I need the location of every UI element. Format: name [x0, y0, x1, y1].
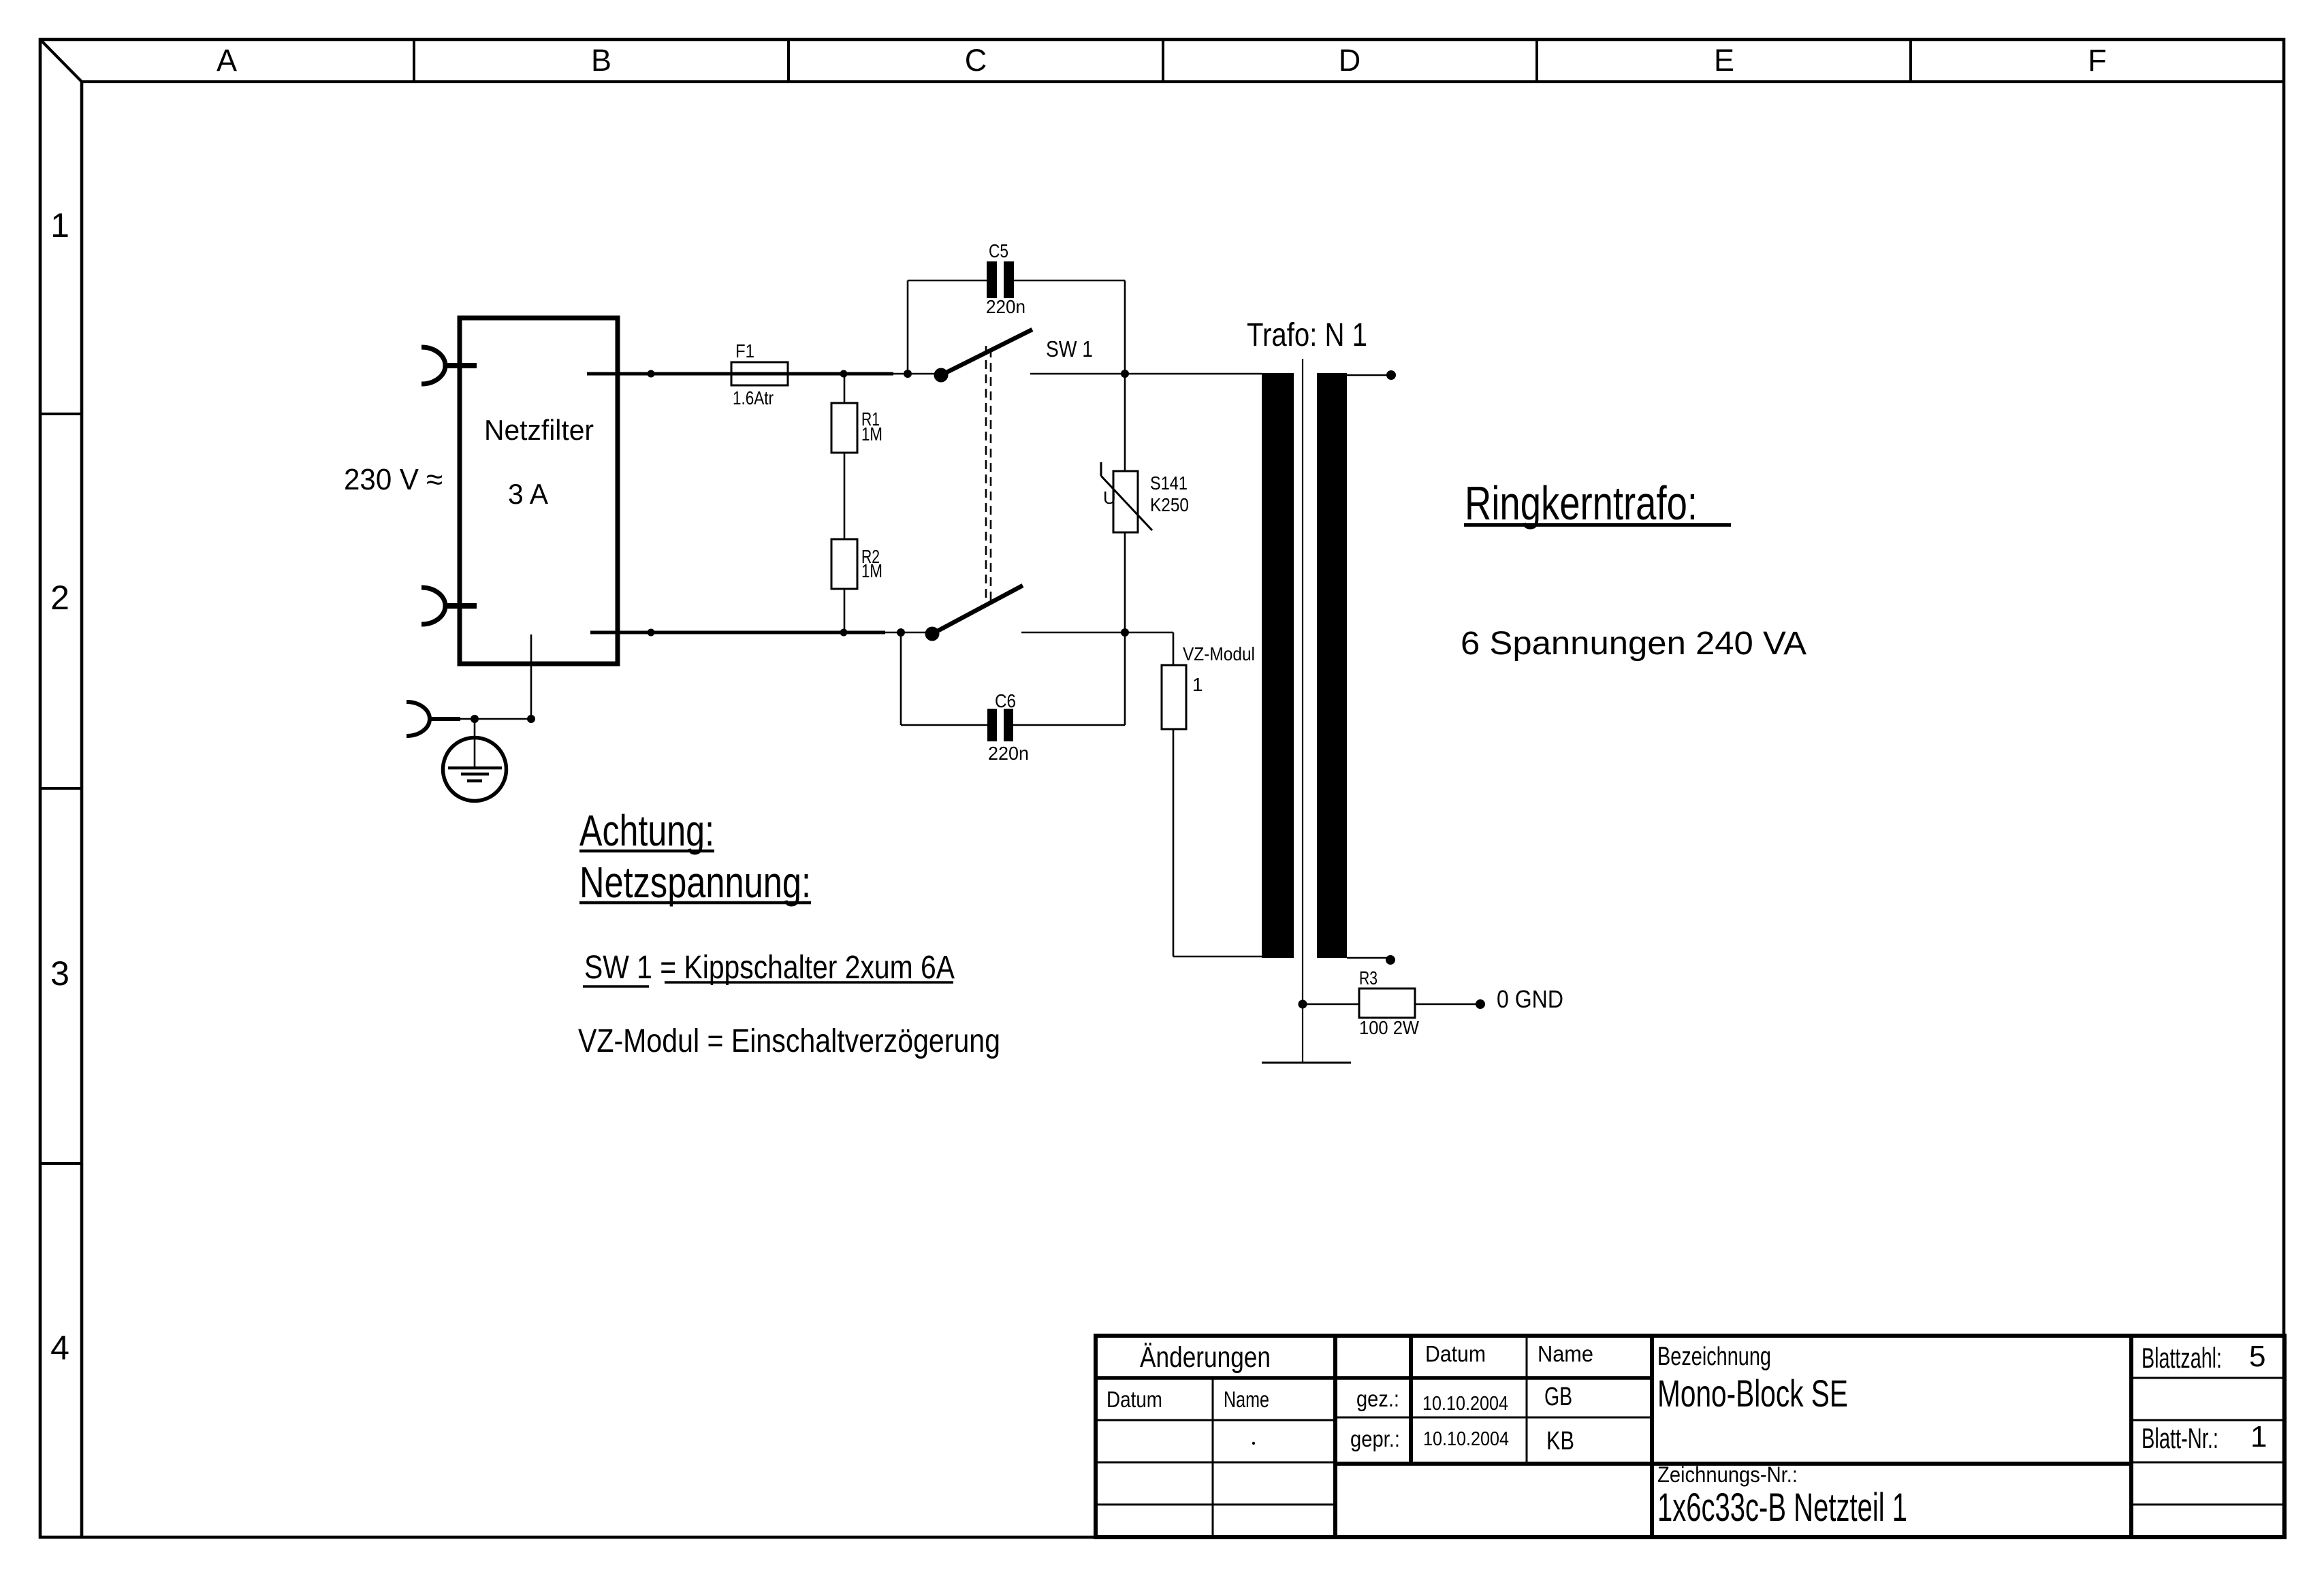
svg-text:A: A: [217, 43, 237, 78]
svg-text:10.10.2004: 10.10.2004: [1423, 1428, 1509, 1450]
switch SW1 pole B blade: [932, 585, 1023, 634]
node junction C6 branch / wire N: [897, 628, 905, 637]
protective earth symbol: [443, 719, 507, 801]
svg-text:C5: C5: [989, 240, 1008, 261]
capacitor C5: [908, 240, 1125, 374]
svg-text:1x6c33c-B Netzteil 1: 1x6c33c-B Netzteil 1: [1657, 1485, 1907, 1530]
wire SW1 pole A throw contact to trafo: [1030, 373, 1262, 375]
svg-text:Trafo: N 1: Trafo: N 1: [1247, 317, 1367, 353]
ground (secondary reference): [1262, 1062, 1351, 1064]
node on wire N at x956: [648, 629, 655, 637]
label SW 1: [1046, 336, 1093, 361]
node secondary top terminal: [1386, 370, 1396, 380]
svg-text:Bezeichnung: Bezeichnung: [1657, 1342, 1771, 1371]
svg-text:Name: Name: [1224, 1387, 1269, 1412]
svg-text:gepr.:: gepr.:: [1350, 1426, 1400, 1451]
svg-text:C6: C6: [995, 690, 1016, 711]
earth connector PE: [407, 702, 460, 736]
wire secondary bottom: [1347, 957, 1390, 959]
node R3 junction on core line: [1299, 1000, 1307, 1009]
node junction C5 riser / wire L: [904, 370, 912, 378]
VZ-Modul (delay module): [1125, 632, 1262, 956]
svg-text:3: 3: [50, 954, 69, 993]
node on wire L at x956: [648, 370, 655, 378]
node secondary bottom terminal: [1386, 955, 1395, 965]
svg-text:Blatt-Nr.:: Blatt-Nr.:: [2142, 1422, 2218, 1454]
svg-text:220n: 220n: [986, 296, 1025, 317]
node junction R1/wire L: [840, 370, 848, 378]
note SW 1 = Kippschalter 2xum 6A: [583, 950, 955, 986]
wire secondary top: [1347, 374, 1391, 376]
svg-text:3 A: 3 A: [508, 478, 548, 510]
note VZ-Modul = Einschaltverzoegerung: [578, 1023, 1000, 1059]
svg-text:Datum: Datum: [1425, 1341, 1486, 1366]
svg-text:0 GND: 0 GND: [1497, 985, 1563, 1013]
SW1 mechanical link (dashed): [986, 346, 991, 600]
svg-text:100 2W: 100 2W: [1359, 1017, 1420, 1038]
fuse F1: [731, 340, 788, 408]
note 6 Spannungen 240 VA: [1461, 626, 1806, 662]
svg-text:1M: 1M: [861, 560, 882, 581]
svg-text:10.10.2004: 10.10.2004: [1422, 1393, 1508, 1415]
svg-text:Achtung:: Achtung:: [579, 806, 714, 855]
svg-text:F1: F1: [735, 340, 754, 361]
wire N: netzfilter output to SW1 pole B: [590, 631, 929, 634]
svg-text:Datum: Datum: [1107, 1387, 1162, 1412]
transformer N1: [1247, 317, 1367, 1063]
svg-text:5: 5: [2249, 1340, 2265, 1373]
node SW1 top throw / varistor branch: [1121, 370, 1129, 378]
wire L: netzfilter output to SW1 pole: [587, 372, 938, 376]
svg-text:VZ-Modul = Einschaltverzögerun: VZ-Modul = Einschaltverzögerung: [578, 1023, 1000, 1059]
svg-text:220n: 220n: [988, 743, 1029, 764]
capacitor C6: [901, 632, 1125, 764]
resistor R2: [831, 539, 882, 632]
svg-text:Mono-Block SE: Mono-Block SE: [1657, 1372, 1848, 1415]
svg-text:B: B: [591, 43, 611, 78]
svg-text:F: F: [2088, 43, 2107, 78]
svg-text:Netzfilter: Netzfilter: [484, 414, 594, 446]
svg-text:VZ-Modul: VZ-Modul: [1183, 643, 1255, 664]
svg-text:E: E: [1714, 43, 1734, 78]
svg-text:6 Spannungen 240 VA: 6 Spannungen 240 VA: [1461, 626, 1806, 662]
node PE / netzfilter ground pin: [527, 715, 535, 723]
svg-text:Blattzahl:: Blattzahl:: [2142, 1342, 2222, 1374]
svg-text:GB: GB: [1544, 1383, 1572, 1411]
resistor R3: [1303, 967, 1480, 1038]
connector J1 230V line input: [421, 347, 477, 384]
svg-text:Zeichnungs-Nr.:: Zeichnungs-Nr.:: [1657, 1462, 1798, 1487]
svg-text:1.6Atr: 1.6Atr: [733, 387, 774, 408]
switch SW1 pole A pivot node: [934, 368, 949, 383]
svg-text:SW 1 = Kippschalter 2xum 6A: SW 1 = Kippschalter 2xum 6A: [584, 950, 955, 986]
svg-text:2: 2: [50, 579, 69, 617]
svg-text:≈: ≈: [426, 463, 443, 496]
svg-text:S141: S141: [1150, 472, 1188, 494]
svg-text:D: D: [1339, 43, 1361, 78]
connector J2 230V neutral input: [421, 588, 477, 624]
node junction R2/wire N: [840, 629, 848, 637]
node 0 GND terminal: [1476, 985, 1563, 1013]
note Achtung heading: [579, 806, 714, 855]
svg-text:KB: KB: [1546, 1427, 1574, 1456]
wire SW1 pole B throw contact: [1021, 632, 1125, 634]
svg-text:1: 1: [1192, 674, 1203, 695]
svg-text:4: 4: [50, 1329, 69, 1367]
svg-text:gez.:: gez.:: [1356, 1386, 1399, 1411]
wire netzfilter ground pin: [530, 634, 532, 719]
svg-text:230 V: 230 V: [344, 463, 419, 496]
svg-text:K250: K250: [1150, 494, 1189, 515]
wire R1 to R2: [844, 453, 846, 539]
svg-text:SW 1: SW 1: [1046, 336, 1093, 361]
resistor R1: [831, 374, 882, 453]
svg-text:R3: R3: [1359, 967, 1378, 988]
svg-text:Netzspannung:: Netzspannung:: [579, 858, 811, 907]
svg-text:1M: 1M: [861, 423, 882, 445]
netzfilter box: [460, 318, 618, 664]
svg-text:C: C: [965, 43, 987, 78]
note Netzspannung heading: [579, 858, 811, 907]
svg-text:1: 1: [50, 206, 69, 244]
node SW1 bottom throw / C6 / VZ branch: [1121, 628, 1129, 637]
node PE / earth symbol branch: [471, 715, 479, 723]
svg-text:Ringkerntrafo:: Ringkerntrafo:: [1465, 477, 1698, 530]
svg-text:1: 1: [2250, 1420, 2267, 1453]
svg-text:Änderungen: Änderungen: [1140, 1341, 1271, 1374]
svg-text:Name: Name: [1538, 1341, 1593, 1366]
wire PE: [460, 718, 531, 720]
varistor S141 K250: [1101, 374, 1189, 632]
note Ringkerntrafo heading: [1464, 477, 1731, 530]
label 230 V: [344, 463, 443, 496]
switch SW1 pole B pivot node: [925, 627, 940, 641]
switch SW1 pole A blade: [941, 329, 1032, 375]
svg-text:U: U: [1103, 487, 1116, 508]
